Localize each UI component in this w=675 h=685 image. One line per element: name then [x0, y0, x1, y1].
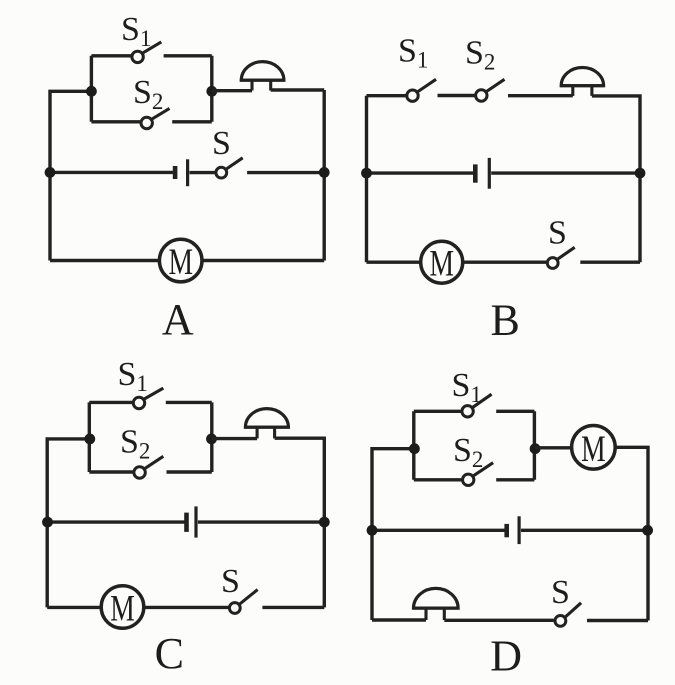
node: B middle-left junction: [361, 168, 372, 179]
wire: D motor to top-right corner and right rail: [615, 447, 648, 620]
wire: C junction to bell: [212, 437, 257, 440]
svg-text:A: A: [162, 295, 194, 344]
wire: B bottom wire left segment: [367, 261, 548, 264]
wire: A right rail: [323, 90, 326, 261]
svg-text:M: M: [581, 429, 606, 470]
wire: A bottom wire: [50, 259, 324, 262]
node: C middle-left junction: [42, 517, 53, 528]
wire: D S1 branch right segment: [496, 410, 534, 413]
svg-text:M: M: [168, 242, 193, 283]
wire: B bell to top-right corner: [592, 96, 640, 262]
motor M (circuit D): [572, 426, 616, 470]
wire: D middle wire left segment: [372, 529, 505, 532]
node: D middle-left junction: [367, 525, 378, 536]
node: A middle-left junction: [45, 167, 56, 178]
bell (electric bell, circuit C): [244, 409, 290, 439]
node: C left junction of parallel box: [84, 434, 95, 445]
battery (cell, circuit C): [187, 506, 197, 537]
svg-text:S: S: [221, 563, 240, 600]
wire: C middle wire right segment: [198, 520, 324, 523]
bell (electric bell, circuit D): [413, 588, 458, 620]
battery (cell, circuit A): [175, 159, 188, 186]
wire: A parallel-box left vertical: [90, 56, 93, 122]
node: D right junction of parallel box: [530, 443, 541, 454]
node: D left junction of parallel box: [409, 443, 420, 454]
wire: D parallel-box right vertical: [533, 411, 536, 480]
wire: B top wire to S1: [367, 94, 407, 97]
battery (cell, circuit D): [507, 516, 519, 544]
switch S (open, circuit C): [229, 590, 257, 614]
wire: B middle wire right segment: [491, 171, 640, 174]
wire: D switch S to right rail: [587, 619, 648, 622]
svg-text:B: B: [491, 296, 520, 345]
motor M (circuit C): [101, 586, 144, 630]
wire: D junction row to left rail: [372, 449, 414, 620]
wire: A S1 branch left segment: [91, 54, 131, 57]
wire: C bell to top-right corner and right rail: [275, 438, 325, 607]
switch S1 (open): [132, 42, 161, 63]
switch S2 (open, circuit D): [463, 463, 494, 486]
wire: A switch S to right rail: [247, 171, 324, 174]
svg-text:S: S: [551, 574, 570, 611]
node: B middle-right junction: [635, 168, 646, 179]
wire: D parallel-box left vertical: [412, 411, 415, 480]
wire: A S2 branch right segment: [172, 120, 212, 123]
wire: C S2 branch left segment: [89, 470, 134, 473]
switch S1 (open, circuit D): [462, 394, 492, 417]
motor M (circuit B): [421, 241, 463, 285]
motor M (circuit A): [159, 239, 202, 283]
switch S2 (open, circuit C): [134, 456, 163, 478]
wire: C middle wire left segment: [47, 520, 186, 523]
wire: B between S1 and S2: [438, 94, 476, 97]
wire: C parallel-box right vertical: [210, 402, 213, 472]
switch S1 (open, circuit C): [133, 388, 163, 409]
wire: C S1 branch right segment: [166, 401, 212, 404]
switch S1 (open, circuit B): [407, 79, 436, 101]
svg-text:D: D: [490, 632, 522, 681]
node: A middle-right junction: [319, 167, 330, 178]
wire: C switch S to right rail: [262, 606, 324, 609]
wire: B switch S to right rail: [580, 261, 640, 264]
wire: D junction to motor: [535, 446, 572, 449]
wire: D S2 branch right segment: [496, 478, 534, 481]
wire: A S1 branch right segment: [164, 54, 212, 57]
wire: D S1 branch left segment: [414, 410, 462, 413]
wire: C parallel-box left vertical: [88, 402, 91, 472]
wire: B S2 to bell: [508, 94, 573, 97]
bell (electric bell, circuit B): [560, 68, 605, 96]
wire: D S2 branch left segment: [414, 478, 463, 481]
svg-text:M: M: [429, 244, 454, 285]
wire: D bell to switch S: [444, 619, 555, 622]
switch S (open, circuit A): [216, 158, 243, 178]
svg-text:S: S: [548, 215, 567, 252]
wire: C S1 branch left segment: [89, 401, 133, 404]
node: C right junction of parallel box: [206, 434, 217, 445]
wire: A top wire junction to bell: [212, 89, 252, 92]
wire: C S2 branch right segment: [167, 470, 212, 473]
wire: B middle wire left segment: [367, 171, 476, 174]
switch S2 (open): [141, 108, 170, 128]
wire: A middle wire left segment: [50, 171, 175, 174]
wire: A S2 branch left segment: [91, 120, 140, 123]
svg-text:M: M: [110, 589, 135, 630]
bell (electric bell, circuit A): [240, 62, 286, 91]
svg-text:C: C: [155, 629, 184, 678]
node: A left junction of parallel box: [86, 86, 97, 97]
svg-text:S: S: [212, 125, 231, 162]
wire: D bottom wire left segment: [372, 618, 426, 621]
node: A right junction of parallel box: [206, 86, 217, 97]
wire: A bell to top-right corner: [271, 88, 325, 91]
wire: C bottom wire: [47, 606, 229, 609]
wire: B left rail: [365, 96, 368, 263]
switch S (open, circuit D): [555, 603, 581, 627]
wire: D middle wire right segment: [521, 529, 648, 532]
battery (cell, circuit B): [475, 158, 489, 189]
wire: A parallel-box right vertical: [210, 56, 213, 122]
wire: A left rail (junction to left, down): [50, 91, 91, 260]
switch S (open, circuit B): [547, 247, 574, 268]
wire: A battery to switch S: [190, 171, 217, 174]
switch S2 (open, circuit B): [476, 79, 505, 101]
wire: C junction row to left rail: [47, 439, 90, 608]
node: D middle-right junction: [642, 525, 653, 536]
node: C middle-right junction: [319, 517, 330, 528]
